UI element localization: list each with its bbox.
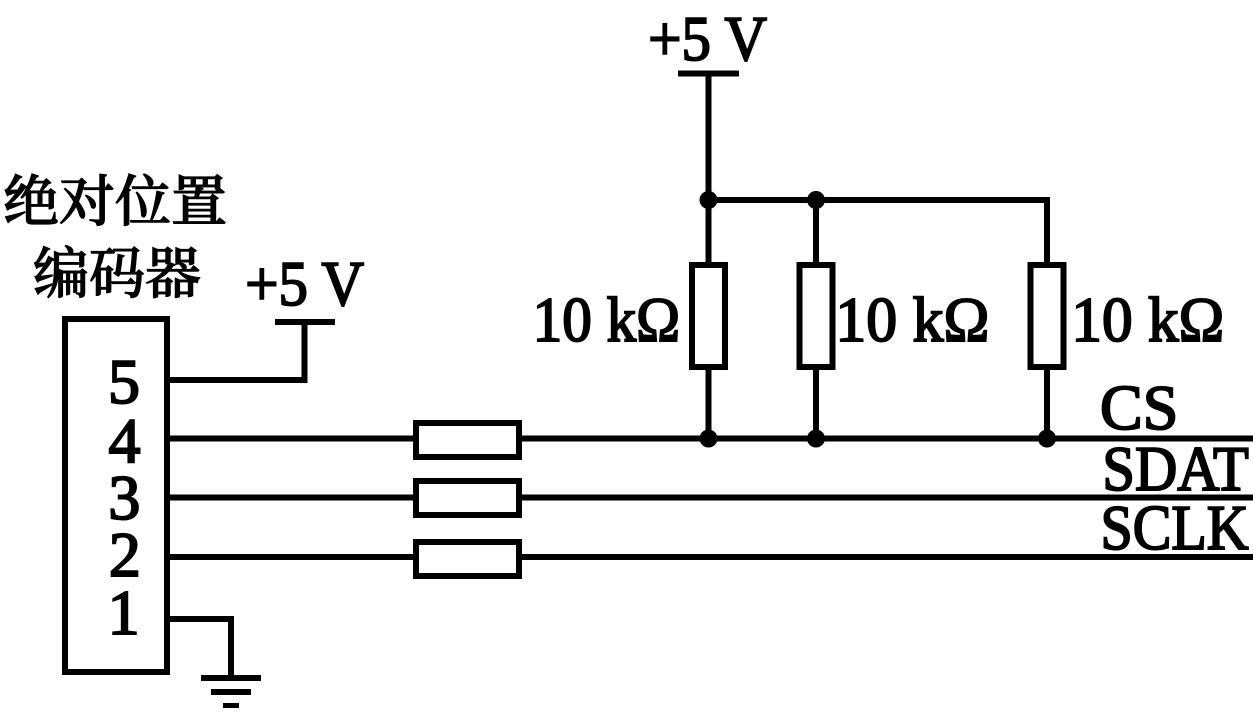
series resistor on SDAT line <box>416 481 519 515</box>
svg-text:1: 1 <box>108 577 140 648</box>
wire SDAT net: pin3 to right edge <box>170 495 1253 501</box>
svg-text:+5 V: +5 V <box>245 249 364 320</box>
svg-text:10 kΩ: 10 kΩ <box>835 284 989 355</box>
junction dot bus/R2 <box>807 191 825 209</box>
resistor 10k pull-up #1 <box>692 265 725 367</box>
wire pin1 to ground <box>170 619 231 678</box>
wire pin5 to +5V rail <box>170 322 305 380</box>
junction dot CS/R3 <box>1038 430 1056 448</box>
junction dot CS/R2 <box>807 430 825 448</box>
svg-text:+5 V: +5 V <box>648 4 767 75</box>
svg-text:10 kΩ: 10 kΩ <box>1071 284 1224 355</box>
wire R1 bottom to CS line <box>706 367 712 442</box>
pin number 1 <box>108 577 140 648</box>
label +5 V (encoder supply) <box>245 249 364 320</box>
net label SDAT <box>1102 434 1248 505</box>
connector J1 box (绝对位置编码器) <box>65 319 167 672</box>
power +5V bar (pull-up supply, top) <box>678 71 739 77</box>
wire R3 bottom to CS line <box>1044 367 1050 442</box>
ground symbol <box>201 678 261 706</box>
wire R2 bottom to CS line <box>813 367 819 442</box>
junction dot bus/R1 <box>700 191 718 209</box>
wire bus stem down to R2 <box>813 200 819 265</box>
value label 10 kOhm #1 <box>533 285 681 356</box>
series resistor on SCLK line <box>416 542 519 576</box>
pin number 2 <box>109 519 141 590</box>
pin number 4 <box>109 405 141 476</box>
resistor 10k pull-up #3 <box>1031 265 1064 367</box>
wire top bus from R1 across to R3 <box>709 200 1048 265</box>
net label CS <box>1100 372 1178 443</box>
wire CS net: pin4 to right edge <box>170 436 1253 442</box>
pin number 3 <box>108 462 140 533</box>
net label SCLK <box>1101 493 1249 563</box>
value label 10 kOhm #2 <box>835 284 989 355</box>
label 编码器 (encoder name line 2) <box>35 246 200 298</box>
power +5V bar (encoder supply) <box>275 319 335 325</box>
label +5 V (pull-up supply, top) <box>648 4 767 75</box>
junction dot CS/R1 <box>700 430 718 448</box>
value label 10 kOhm #3 <box>1071 284 1224 355</box>
svg-text:SCLK: SCLK <box>1101 493 1249 563</box>
wire SCLK net: pin2 to right edge <box>170 554 1253 560</box>
svg-text:CS: CS <box>1100 372 1178 443</box>
resistor 10k pull-up #2 <box>800 265 833 367</box>
svg-text:10 kΩ: 10 kΩ <box>533 285 681 356</box>
label 绝对位置 (encoder name line 1) <box>5 174 225 226</box>
series resistor on CS line <box>416 423 519 457</box>
pin number 5 <box>108 346 140 417</box>
wire +5V stem down to R1 <box>706 74 712 266</box>
